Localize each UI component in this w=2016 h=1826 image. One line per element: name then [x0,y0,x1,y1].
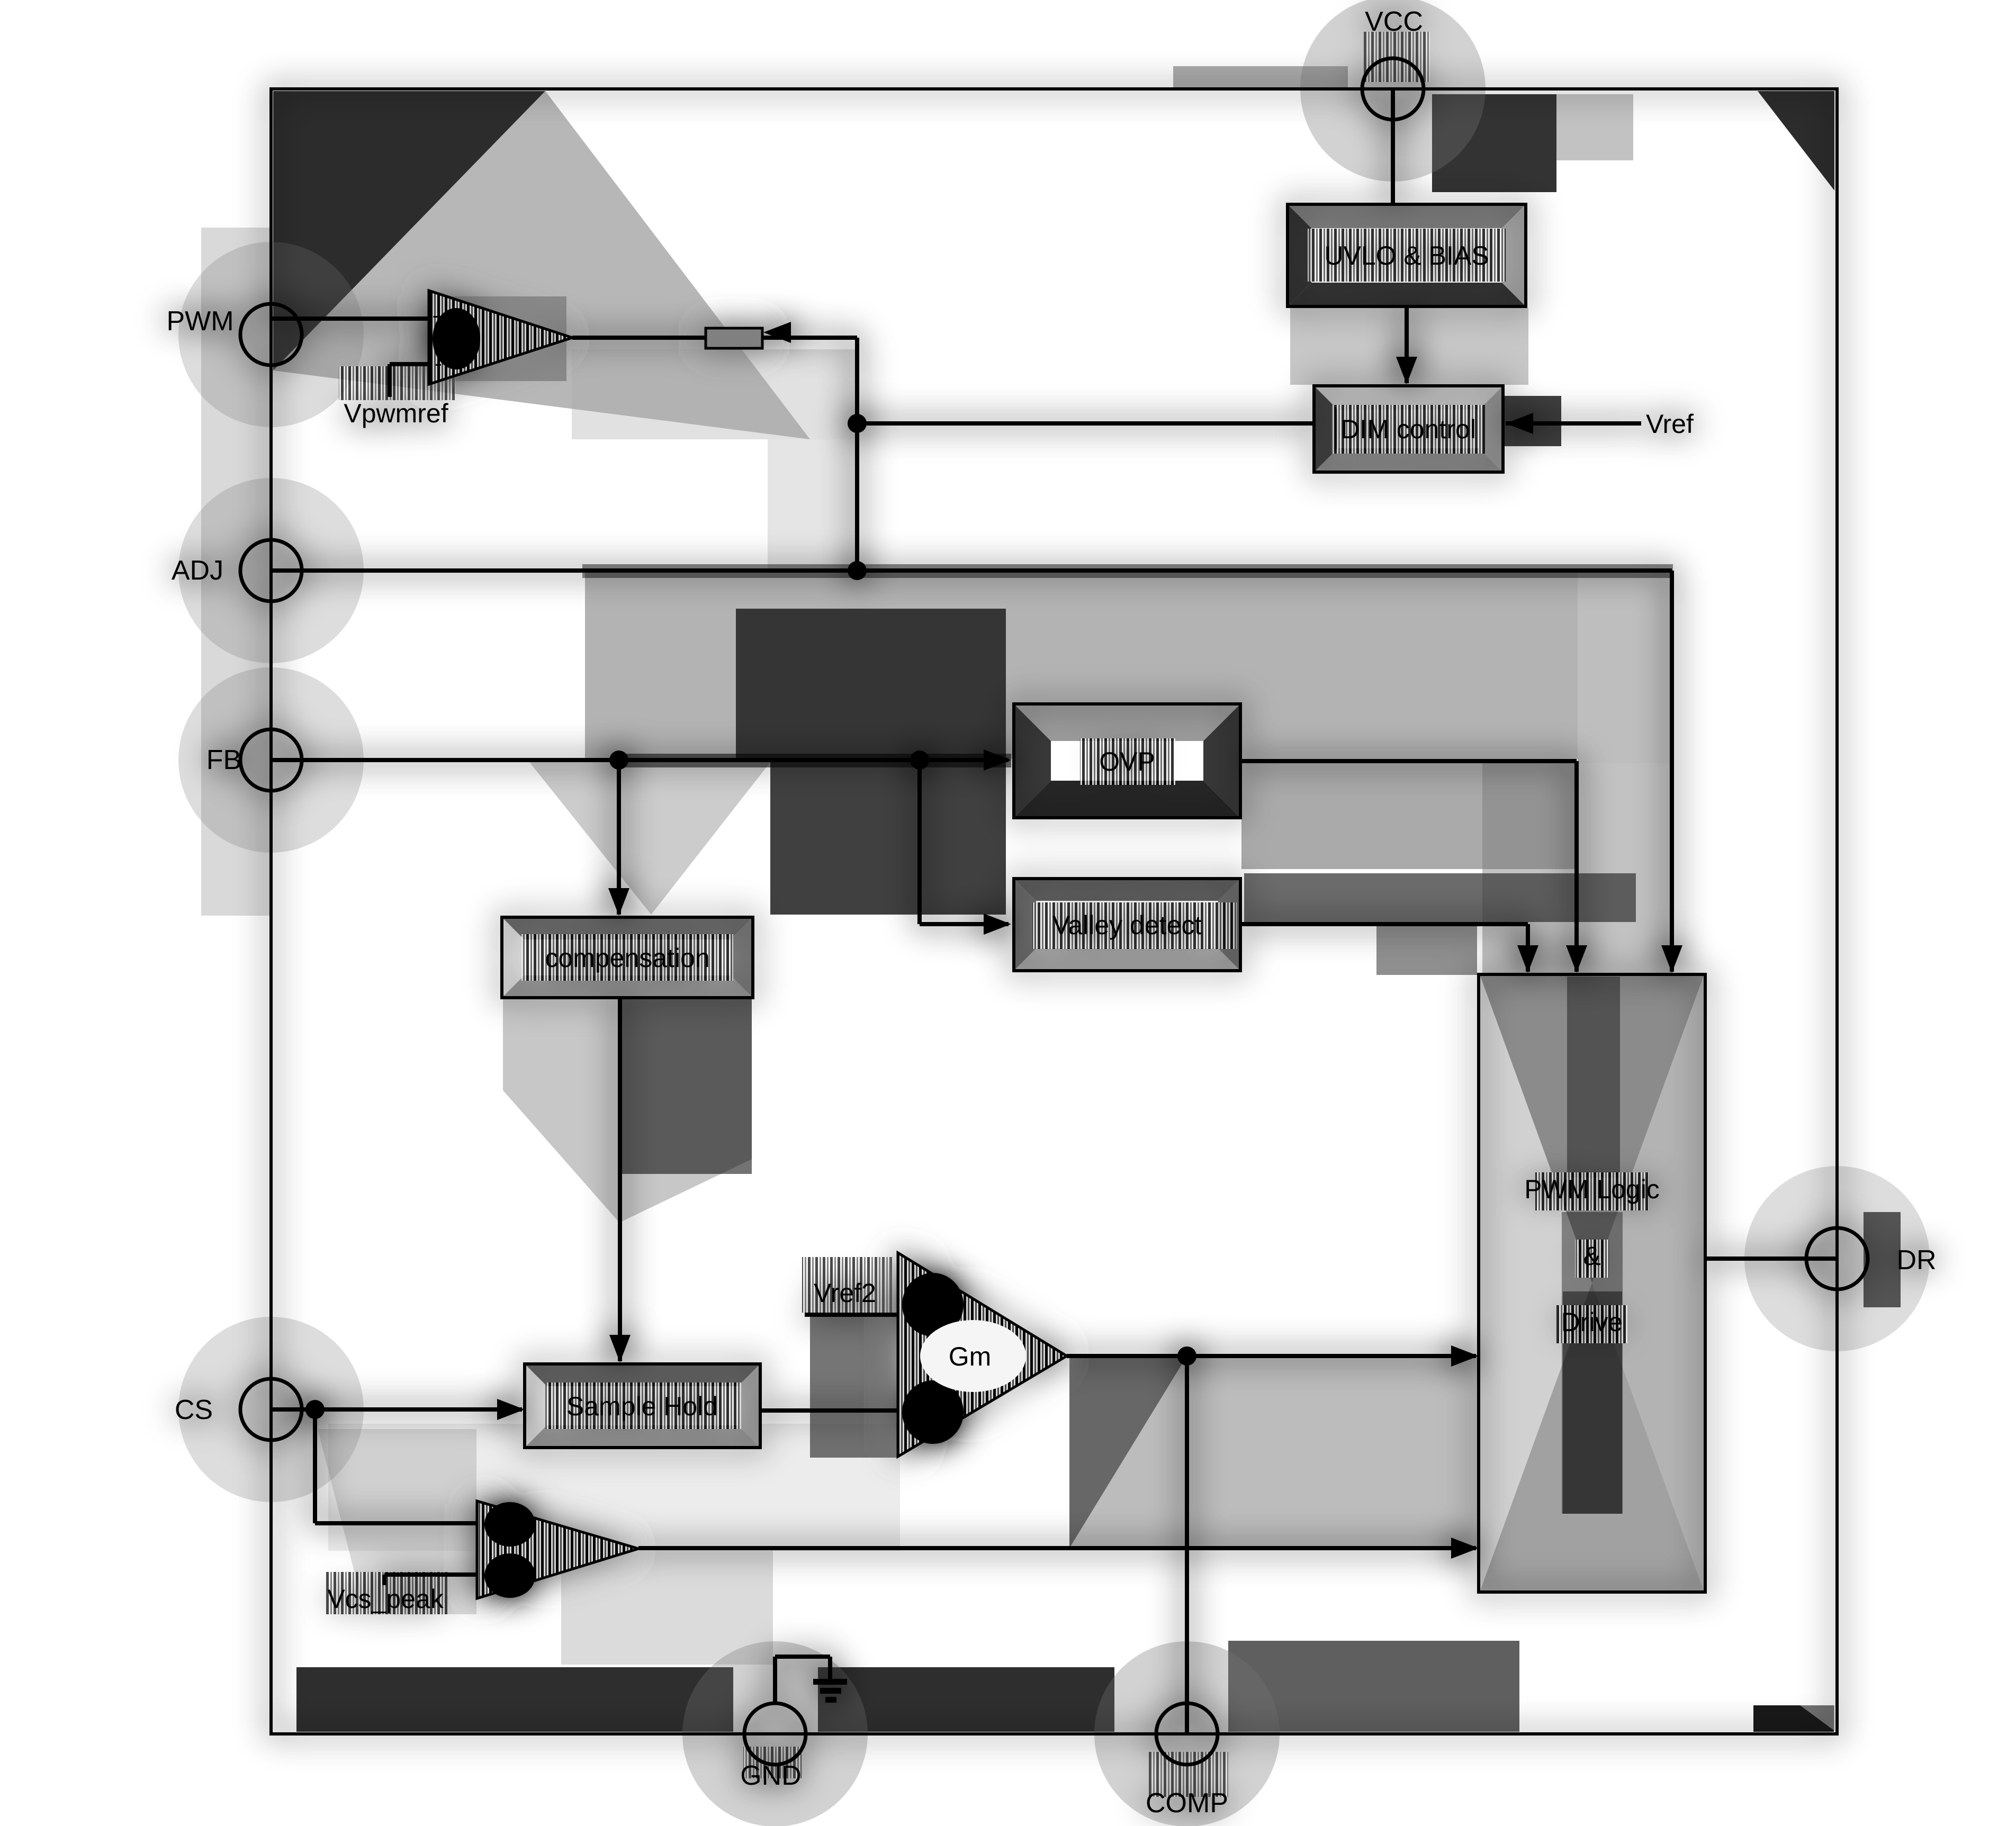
top-left corner fan [273,91,545,370]
